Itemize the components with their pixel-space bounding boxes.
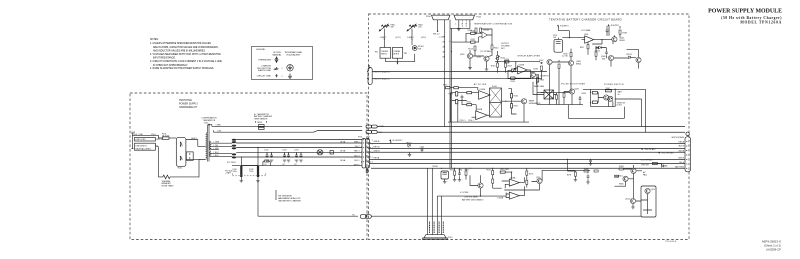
legend thermal breaker symbol (275, 56, 278, 63)
section rail (537, 75, 625, 118)
svg-text:100: 100 (553, 37, 556, 39)
svg-text:Q520: Q520 (536, 177, 540, 179)
svg-text:GND B: GND B (374, 151, 381, 153)
twisted pair bead A (232, 139, 236, 141)
lv resistor R576 (526, 171, 528, 175)
svg-text:TENTATIVE BATTERY CHARGER CIRC: TENTATIVE BATTERY CHARGER CIRCUIT BOARD (549, 17, 622, 21)
twisted pair bead C (232, 153, 236, 155)
svg-text:TPN-6033-A: TPN-6033-A (665, 240, 677, 243)
ramp resistor R556 (510, 94, 512, 98)
power switch mid leg (597, 93, 603, 103)
relay transistor Q515 (645, 188, 650, 193)
svg-text:U502A: U502A (480, 88, 486, 91)
ac filter resistor R553 (467, 92, 472, 94)
svg-text:L RED: L RED (214, 148, 220, 150)
lv resistor R577 (526, 180, 528, 184)
volt set adj flag (658, 152, 660, 154)
svg-text:GND A: GND A (374, 140, 381, 143)
svg-text:TENTATIVE: TENTATIVE (179, 99, 192, 102)
power switch resistor R545 (592, 91, 597, 94)
lfo transistor Q507 (547, 59, 552, 64)
lfo wires top (558, 31, 614, 44)
svg-text:J701: J701 (366, 137, 370, 139)
svg-text:BLU 4: BLU 4 (354, 155, 359, 157)
lfo resistor R534 (541, 66, 543, 70)
svg-text:R585: R585 (619, 184, 624, 186)
svg-text:B SUPPLY: B SUPPLY (541, 75, 550, 77)
right cluster wires (615, 166, 643, 198)
svg-text:.01: .01 (294, 164, 297, 166)
svg-text:R534: R534 (533, 69, 538, 71)
switch output wires (186, 140, 205, 160)
svg-text:B+ SUPPLY: B+ SUPPLY (393, 140, 404, 142)
connector pin dot columns (363, 139, 368, 162)
svg-text:1. UNLESS OTHERWISE SPECIFIED: 1. UNLESS OTHERWISE SPECIFIED RESISTOR V… (150, 42, 211, 45)
svg-text:L GRN: L GRN (214, 142, 220, 144)
svg-text:CR520: CR520 (406, 143, 412, 145)
lv comparator U503B (509, 192, 519, 199)
svg-text:R516: R516 (491, 65, 496, 67)
svg-text:PIN 4-2: PIN 4-2 (433, 34, 439, 36)
lamp end stub (330, 151, 333, 154)
svg-text:LINE CORD: LINE CORD (136, 139, 147, 141)
svg-text:BLK 5: BLK 5 (354, 160, 359, 162)
svg-text:Q514: Q514 (625, 198, 630, 200)
svg-text:R525: R525 (540, 79, 544, 81)
power switch top rail (583, 89, 646, 132)
lv cap C531 (458, 171, 461, 175)
ramp resistor R557 (510, 104, 512, 108)
svg-text:AC FILTER: AC FILTER (474, 83, 487, 86)
lfo resistor R537 (587, 45, 589, 49)
ac filter resistor R552 (456, 92, 458, 96)
svg-text:CR530: CR530 (432, 166, 438, 168)
legend intl earth symbol (288, 73, 292, 78)
lv resistor R570 (454, 171, 456, 175)
svg-text:T501: T501 (204, 122, 208, 124)
output set resistor R516 (497, 63, 499, 67)
svg-text:CIRCUIT GND: CIRCUIT GND (257, 76, 272, 78)
filter block FL501 (490, 88, 502, 117)
thermal breaker TB801 (380, 48, 391, 59)
svg-text:BKR B: BKR B (393, 54, 399, 56)
svg-text:4.2 V REF: 4.2 V REF (460, 192, 469, 194)
svg-text:TB501: TB501 (257, 122, 262, 124)
svg-text:MODEL TPN1260A: MODEL TPN1260A (740, 21, 782, 25)
lv resistor R571 (465, 171, 467, 175)
svg-text:GENERATOR: GENERATOR (529, 102, 541, 105)
lfo cap C510 (605, 50, 608, 54)
svg-text:C703: C703 (282, 150, 286, 152)
svg-text:AUX B: AUX B (679, 144, 685, 147)
bus line 7 (369, 162, 685, 164)
error amp resistor R524 (511, 77, 515, 79)
svg-text:VOLT SET ADJ: VOLT SET ADJ (641, 159, 653, 162)
transformer primary top stub (204, 140, 207, 160)
lfo resistor R535 (570, 53, 572, 57)
pulse pos resistor R540 (556, 95, 558, 99)
svg-text:USE BATTERY CHARGER: USE BATTERY CHARGER (278, 199, 302, 202)
legend intl protective earth symbol (287, 65, 293, 71)
svg-text:.01: .01 (282, 164, 285, 166)
tap drop wire (241, 157, 258, 166)
top sense wire pair (212, 126, 362, 132)
svg-text:EQUIVALENT: EQUIVALENT (287, 54, 301, 57)
wire gauge labels on bus (340, 140, 346, 162)
svg-text:REG B: REG B (374, 147, 381, 149)
svg-text:1: 1 (455, 23, 456, 25)
bus component CR520 (408, 144, 410, 147)
svg-text:U501B: U501B (519, 64, 525, 66)
svg-text:BATTERY DISCONNECT: BATTERY DISCONNECT (462, 199, 484, 202)
lfo diode CR510 (599, 46, 601, 49)
svg-text:CHG INT ADJ: CHG INT ADJ (644, 148, 655, 151)
svg-text:B6: B6 (443, 56, 445, 58)
lv comparator U503A (509, 179, 519, 186)
assembly dashed bracket (232, 173, 265, 175)
lfo diode CR511 (628, 56, 630, 59)
svg-text:BAT TRKG: BAT TRKG (675, 166, 684, 169)
error amp input wires (508, 62, 518, 79)
svg-text:YEL B: YEL B (679, 162, 685, 164)
svg-text:2200: 2200 (232, 171, 236, 173)
svg-text:4.2 1W: 4.2 1W (562, 56, 568, 58)
line cord terminal box (135, 143, 156, 150)
bus hang cap C541 (590, 158, 592, 161)
error amp resistor R520 (505, 61, 509, 63)
svg-text:POWER SUPPLY: POWER SUPPLY (179, 103, 198, 106)
svg-text:BKR A: BKR A (381, 53, 387, 56)
svg-text:RAMP GEN: RAMP GEN (534, 85, 545, 88)
temp comp feedback wires (476, 29, 492, 45)
lfo resistor R536 (595, 52, 597, 56)
svg-text:S501: S501 (178, 168, 182, 170)
svg-text:(1.8V): (1.8V) (617, 105, 622, 107)
svg-text:Q516: Q516 (460, 54, 465, 56)
P505 pin 1 ground (458, 20, 460, 29)
svg-text:NEUTRAL (GREY): NEUTRAL (GREY) (136, 148, 152, 151)
svg-text:THERM BKR: THERM BKR (258, 60, 271, 62)
transformer T501 core (207, 125, 209, 162)
svg-text:FL501: FL501 (492, 86, 497, 88)
svg-text:B2: B2 (443, 41, 445, 43)
B+ supply flag left (557, 25, 559, 27)
battery wire labels rotated (430, 222, 444, 234)
svg-text:POWER SUPPLY MODULE: POWER SUPPLY MODULE (708, 9, 782, 15)
bus line 5 (369, 151, 685, 153)
filter cap labels (264, 150, 298, 166)
svg-text:FAIL: FAIL (643, 174, 647, 177)
svg-text:R512: R512 (494, 48, 499, 50)
connector drop wire (444, 20, 446, 127)
svg-text:(4.2V): (4.2V) (396, 37, 401, 39)
svg-text:EARTH GND: EARTH GND (258, 69, 271, 72)
svg-text:18 GA: 18 GA (340, 159, 346, 162)
thermistor RT502 on rail (265, 160, 269, 162)
second vertical rail (451, 28, 453, 168)
svg-text:SPR 50: SPR 50 (156, 139, 162, 141)
svg-text:LINE (GREY): LINE (GREY) (136, 145, 147, 147)
svg-text:RED A: RED A (679, 141, 685, 144)
svg-text:C704: C704 (294, 150, 298, 152)
svg-text:L BLU: L BLU (214, 152, 220, 154)
svg-text:IN OHMS NOT APPROPRIATELY.: IN OHMS NOT APPROPRIATELY. (153, 64, 188, 67)
wire from line cord down to thermal breaker (158, 148, 161, 177)
lfo diode CR513 (596, 46, 598, 49)
right cluster transistor Q513 (623, 176, 628, 181)
lv resistor R572 (492, 171, 494, 175)
svg-text:PULSE POSITIONER: PULSE POSITIONER (561, 83, 585, 85)
transformer secondary winding B (210, 151, 211, 156)
battery connector wires (428, 168, 442, 234)
svg-text:RED 3: RED 3 (354, 151, 359, 153)
connector J501/P501 upper pair (366, 125, 372, 128)
error amp transistor Q518 (530, 72, 535, 77)
svg-text:U502B: U502B (477, 109, 483, 111)
mid cluster resistor R578 (574, 172, 576, 176)
P505 pin 2 dashes (462, 20, 464, 27)
connector pin ticks (361, 143, 371, 162)
temp comp op-amp U501A (482, 32, 487, 38)
svg-text:YEL 2: YEL 2 (355, 146, 360, 148)
svg-text:TB2: TB2 (404, 53, 407, 55)
svg-text:4. NODE IS ADAPTED ON THE POWE: 4. NODE IS ADAPTED ON THE POWER SUPPLY M… (150, 67, 214, 70)
legend chassis gnd symbol (274, 67, 279, 70)
svg-text:(4.2V): (4.2V) (421, 37, 426, 39)
thermal breaker TB802 (392, 48, 402, 59)
P505 pin 4 wire long (450, 20, 470, 168)
svg-text:ERROR AMPLIFIER: ERROR AMPLIFIER (518, 54, 541, 57)
svg-text:R555: R555 (467, 102, 471, 104)
svg-text:AND INDUCTOR VALUES ARE IN MIL: AND INDUCTOR VALUES ARE IN MILLIHENRIES. (153, 49, 206, 52)
svg-text:R557: R557 (514, 106, 518, 108)
svg-text:GRN 1: GRN 1 (354, 141, 360, 143)
secondary tap wires (211, 143, 232, 156)
legend circuit gnd symbol (275, 74, 277, 77)
switch contact dots (180, 142, 181, 143)
line cord label row (135, 138, 156, 141)
svg-text:REG B: REG B (678, 158, 684, 160)
svg-text:2: 2 (461, 23, 462, 25)
temp comp resistor R519 (471, 41, 475, 43)
lfo resistor R535 (558, 64, 560, 68)
temp comp resistor R511 (480, 28, 482, 32)
cap ground A (240, 177, 242, 181)
svg-text:CHG LMT: CHG LMT (641, 164, 650, 166)
Q514 wires (633, 201, 641, 207)
error amp op-amp U501B (518, 66, 528, 74)
battery connector P510 shell (424, 235, 446, 238)
pulse pos resistor R541 (563, 93, 565, 97)
svg-text:J 4(M) 2: J 4(M) 2 (380, 37, 387, 39)
vertical rail x649 (609, 100, 613, 107)
svg-text:LFO RAIL: LFO RAIL (581, 29, 591, 32)
connector mounting hole (686, 132, 689, 135)
transformer secondary winding A (210, 141, 211, 150)
svg-text:GND A: GND A (678, 150, 684, 153)
lfo transistor Q509 (608, 55, 613, 60)
svg-text:R513: R513 (468, 49, 473, 51)
svg-text:C702: C702 (264, 150, 268, 152)
svg-text:R574 100K: R574 100K (500, 169, 510, 171)
right cluster resistor R580 (584, 170, 588, 172)
ac line wire (132, 135, 162, 138)
svg-text:U504: U504 (584, 34, 588, 36)
svg-text:(50 Hz with Battery Charger): (50 Hz with Battery Charger) (721, 16, 782, 20)
svg-text:TEMPERATURE COMPENSATION: TEMPERATURE COMPENSATION (474, 23, 513, 26)
svg-text:R547: R547 (606, 88, 610, 90)
bus line 3 (369, 142, 685, 144)
svg-text:18 GA: 18 GA (340, 140, 346, 143)
top connector P504 (432, 15, 451, 20)
svg-text:L YEL: L YEL (217, 131, 222, 133)
power switch resistor R547 (605, 90, 611, 92)
svg-text:R572: R572 (487, 170, 491, 172)
svg-text:Q515: Q515 (651, 189, 656, 191)
svg-text:R580: R580 (584, 168, 589, 170)
connector pin stub with dot (437, 20, 439, 31)
bus component C520 (421, 148, 424, 152)
connector pin dots (686, 141, 687, 169)
lfo transistor Q508 (568, 60, 573, 65)
svg-text:R540: R540 (549, 97, 554, 99)
remote sense wire A (372, 71, 547, 73)
right cluster resistor R583 (619, 168, 623, 170)
svg-text:F501: F501 (151, 134, 155, 136)
svg-text:P701: P701 (358, 137, 362, 139)
svg-text:B SUPPLY: B SUPPLY (560, 25, 569, 27)
kit label (179, 99, 198, 109)
relay K501 box (641, 186, 656, 217)
connector pin numbers right (372, 139, 373, 163)
lfo transistor Q510A (636, 57, 641, 62)
svg-text:C554 .1: C554 .1 (468, 120, 474, 122)
svg-text:(A)3599-CP: (A)3599-CP (766, 248, 781, 252)
svg-text:3. CIRCUIT CONDITIONS: LOAD CU: 3. CIRCUIT CONDITIONS: LOAD CURRENT 1 IN… (150, 60, 222, 63)
secondary bus lines to connector (236, 140, 362, 158)
svg-text:MANUAL: MANUAL (272, 54, 282, 57)
battery charger board enclosure (369, 14, 690, 240)
cluster bottom wires (385, 54, 414, 64)
transistor Q514 (630, 198, 635, 203)
svg-text:R517: R517 (508, 65, 513, 67)
lv rail component labels (432, 166, 491, 172)
svg-text:LEGEND:: LEGEND: (256, 49, 266, 51)
power switch darlington Q513B (608, 96, 613, 101)
relay internal wires (641, 194, 652, 214)
svg-text:TEMP SENSOR: TEMP SENSOR (254, 119, 268, 121)
svg-text:E5: E5 (353, 214, 355, 216)
svg-text:C531: C531 (458, 170, 462, 172)
ramp transistor Q517 (521, 99, 526, 104)
ac filter bottom rail (448, 93, 529, 122)
legend border (252, 47, 313, 80)
svg-text:P510: P510 (448, 237, 452, 239)
electrolytic cap C709 (257, 166, 259, 177)
svg-text:L RED: L RED (216, 125, 222, 127)
bus labels left (374, 140, 381, 159)
error amp sub parts (537, 78, 539, 82)
pulse pos transistor Q511 (569, 89, 574, 94)
P505 pin number labels (455, 23, 470, 25)
svg-text:REG A: REG A (374, 157, 381, 160)
svg-text:M9641: M9641 (576, 63, 581, 65)
bus ground stub (409, 152, 411, 154)
svg-text:VOLT SET ADJ: VOLT SET ADJ (662, 152, 674, 155)
ac filter op-amp U502B (476, 111, 488, 120)
bus junction label B+ (389, 139, 391, 141)
cap ground B (257, 176, 259, 178)
svg-text:2. VOLTAGES MEASURED WITH VOM,: 2. VOLTAGES MEASURED WITH VOM, WITH 1 A … (150, 53, 221, 56)
ac filter input resistor R550 (446, 87, 451, 89)
ramp wires (509, 89, 522, 114)
wire from line terminal to fuse (155, 146, 158, 148)
svg-text:R550: R550 (443, 85, 447, 87)
bus line 4 (369, 147, 685, 149)
sense line A continuation (377, 126, 685, 128)
svg-text:R537: R537 (580, 47, 584, 49)
power switch left leg (591, 89, 616, 106)
interconnect wire to relay (371, 215, 641, 217)
ac filter op-amp U502A (479, 91, 491, 100)
svg-text:TB1: TB1 (375, 51, 378, 53)
svg-text:18 GA: 18 GA (340, 150, 346, 153)
B+ supply flag right (607, 24, 609, 26)
left rail pin labels (439, 35, 446, 58)
svg-text:B SUPPLY: B SUPPLY (611, 25, 620, 27)
svg-text:Q503: Q503 (476, 57, 481, 59)
ac filter wiring left (450, 88, 479, 118)
power switch darlington Q513A (604, 95, 609, 100)
temp comp resistor R518 (471, 32, 475, 34)
interlock block (186, 152, 193, 160)
svg-text:Q511: Q511 (575, 88, 579, 90)
ac filter resistor R554 (456, 99, 458, 103)
svg-text:4: 4 (469, 23, 470, 25)
pulse pos cap C512 (579, 96, 582, 100)
right cluster resistor R581 (594, 170, 598, 172)
svg-text:U503A: U503A (510, 176, 516, 179)
indicator lamp DS501 (317, 150, 323, 155)
transformer top junction (208, 124, 210, 126)
thermal breaker symbol (161, 175, 172, 179)
thermal fuse on sense line (259, 125, 265, 127)
bus line 8 (371, 167, 685, 169)
pulse pos wires (537, 92, 580, 105)
svg-text:CR511: CR511 (626, 54, 632, 56)
lfo filter can C532 (554, 39, 562, 52)
svg-text:INPUT RESISTANCE.: INPUT RESISTANCE. (153, 57, 176, 60)
mid drop to cluster (567, 159, 575, 171)
down arrow (397, 62, 399, 64)
lfo resistor R533 (619, 30, 621, 34)
vertical drop from bus (257, 148, 259, 217)
svg-text:GRN 1: GRN 1 (191, 138, 197, 140)
ac filter cap C551 (461, 95, 464, 99)
switch S501 box (176, 138, 186, 167)
connector J502 main (362, 139, 366, 169)
svg-text:R533: R533 (623, 33, 628, 35)
right cluster cap C540 (587, 174, 590, 178)
connector left wire labels (354, 141, 360, 166)
svg-text:L YEL: L YEL (214, 145, 219, 147)
lv resistor R573 (492, 179, 494, 183)
filter cap C507 (300, 152, 302, 155)
svg-text:WHT 6: WHT 6 (354, 164, 360, 166)
filter cap C506 (296, 152, 298, 155)
svg-text:J 4(M) 2: J 4(M) 2 (407, 37, 414, 39)
lfo interconnect wires (542, 49, 572, 105)
